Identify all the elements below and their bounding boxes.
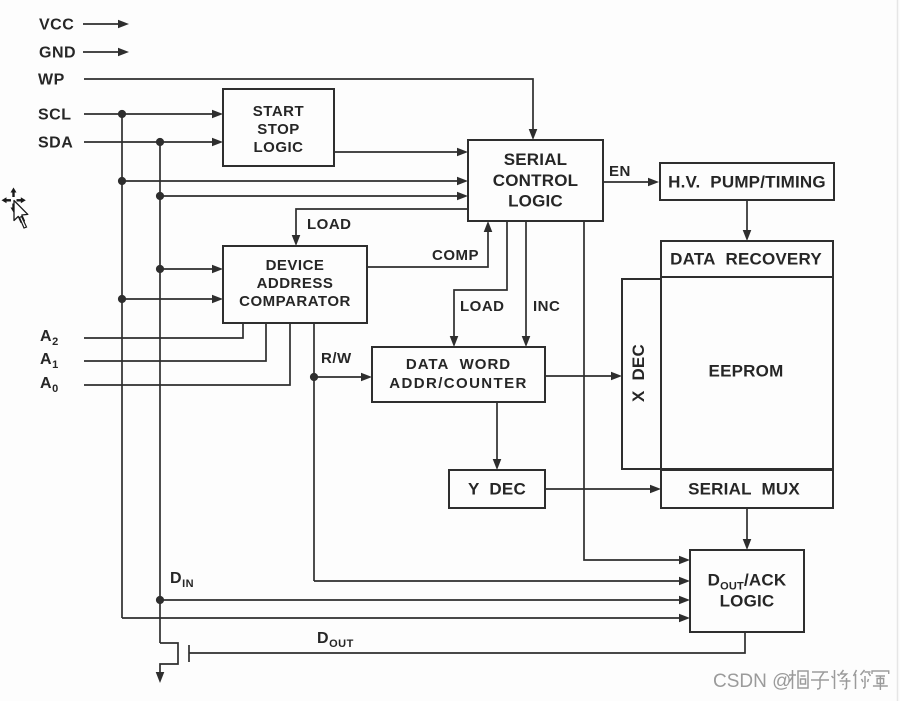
block DATA WORD ADDR/COUNTER [372, 347, 545, 402]
arrowhead serial mux [650, 485, 661, 494]
transistor Q1 channel [160, 643, 178, 675]
svg-text:A2: A2 [40, 328, 59, 348]
glyph ni [854, 670, 871, 689]
wire A1 [84, 323, 266, 361]
arrowhead WP down [529, 129, 538, 140]
wire y dec to serial mux [545, 488, 653, 490]
arrowhead transistor ground [156, 672, 165, 683]
wire serial control to dout ack [584, 221, 682, 560]
wire SCL input [84, 113, 215, 115]
svg-text:Y DEC: Y DEC [468, 480, 526, 499]
svg-text:EN: EN [609, 163, 631, 180]
glyph zi [811, 672, 829, 689]
wire COMP to serial control [367, 229, 488, 267]
svg-text:DIN: DIN [170, 570, 194, 590]
svg-text:SCL: SCL [38, 107, 72, 124]
transistor Q1 gate plate [188, 645, 190, 662]
arrowhead SCL comparator [212, 295, 223, 304]
wire SCL to comparator [122, 298, 215, 300]
svg-text:LOGIC: LOGIC [254, 139, 304, 156]
wire SDA input [84, 141, 215, 143]
svg-text:DATA WORD: DATA WORD [406, 356, 511, 373]
svg-text:SERIAL: SERIAL [504, 150, 568, 169]
wire R/W to data word counter [314, 376, 364, 378]
arrowhead GND [118, 48, 129, 57]
svg-text:SERIAL MUX: SERIAL MUX [688, 480, 800, 499]
svg-text:WP: WP [38, 72, 65, 89]
wire SCL vertical bus [121, 114, 123, 618]
junction dot R/W [310, 373, 318, 381]
arrowhead INC data word [522, 336, 531, 347]
arrowhead LOAD comparator [292, 235, 301, 246]
wire data word to x dec [545, 375, 614, 377]
svg-text:COMPARATOR: COMPARATOR [239, 293, 351, 310]
block DOUT/ACK LOGIC [690, 550, 804, 632]
arrowhead LOAD data word [450, 336, 459, 347]
wire EN [603, 181, 651, 183]
arrowhead data recovery [743, 230, 752, 241]
block Y DEC [449, 470, 545, 508]
svg-text:CSDN @: CSDN @ [713, 671, 791, 692]
arrowhead dout ack in2 [679, 577, 690, 586]
wire R/W to dout ack logic [314, 580, 682, 582]
arrowhead y dec [493, 459, 502, 470]
block SERIAL MUX [661, 470, 833, 508]
wire R/W vertical [313, 323, 315, 581]
arrowhead dout ack in1 [679, 556, 690, 565]
arrowhead SDA serial control [457, 192, 468, 201]
wire A0 [84, 323, 290, 385]
svg-text:A1: A1 [40, 351, 59, 371]
junction dot SDA comparator tap [156, 265, 164, 273]
svg-text:DOUT: DOUT [317, 630, 354, 650]
arrowhead x dec [611, 372, 622, 381]
svg-text:X DEC: X DEC [629, 344, 648, 402]
svg-text:SDA: SDA [38, 135, 73, 152]
svg-text:GND: GND [39, 45, 76, 62]
junction dot SDA [156, 138, 164, 146]
junction dot SCL comparator tap [118, 295, 126, 303]
wire SCL bus to dout ack [122, 617, 682, 619]
block X DEC [622, 279, 661, 469]
svg-text:LOAD: LOAD [460, 298, 505, 315]
svg-text:VCC: VCC [39, 17, 74, 34]
wire DIN [160, 599, 682, 601]
wire LOAD to data word counter [454, 221, 507, 339]
arrowhead SDA comparator [212, 265, 223, 274]
svg-text:LOGIC: LOGIC [720, 592, 775, 611]
svg-text:STOP: STOP [257, 121, 300, 138]
wire hv pump to data recovery [746, 200, 748, 233]
wire DOUT from dout ack logic to transistor gate [189, 632, 745, 653]
glyph jiang [832, 670, 851, 689]
block H.V. PUMP/TIMING [660, 163, 834, 200]
page edge line [897, 0, 899, 701]
junction dot DIN [156, 596, 164, 604]
svg-text:A0: A0 [40, 375, 59, 395]
svg-text:ADDR/COUNTER: ADDR/COUNTER [389, 375, 527, 392]
wire SDA vertical bus [159, 142, 161, 643]
cursor icon [2, 188, 28, 229]
glyph jun [872, 671, 889, 690]
wire SDA to comparator [160, 268, 215, 270]
arrowhead dout ack in3 DIN [679, 596, 690, 605]
svg-text:EEPROM: EEPROM [709, 362, 784, 381]
wire A2 [84, 323, 243, 338]
arrowhead COMP up [484, 221, 493, 232]
block DEVICE ADDRESS COMPARATOR [223, 246, 367, 323]
arrowhead dout ack in4 [679, 614, 690, 623]
wire SDA to serial control [160, 195, 460, 197]
svg-text:INC: INC [533, 298, 560, 315]
svg-text:DATA RECOVERY: DATA RECOVERY [670, 250, 822, 269]
svg-text:LOGIC: LOGIC [508, 192, 563, 211]
wire LOAD to device address comparator [296, 209, 468, 238]
arrowhead dout ack top [743, 539, 752, 550]
arrowhead SCL serial control [457, 177, 468, 186]
arrowhead EN [648, 178, 659, 187]
svg-text:START: START [253, 103, 304, 120]
wire VCC arrow [83, 23, 119, 25]
arrowhead start stop out [457, 148, 468, 157]
block DATA RECOVERY [661, 241, 833, 277]
glyph tong [789, 670, 808, 689]
wire WP to serial control top [84, 79, 533, 133]
junction dot SCL [118, 110, 126, 118]
wire data word to y dec [496, 402, 498, 462]
svg-text:COMP: COMP [432, 247, 479, 264]
wire start stop out [334, 151, 460, 153]
block SERIAL CONTROL LOGIC [468, 140, 603, 221]
svg-text:R/W: R/W [321, 350, 352, 367]
svg-text:DEVICE: DEVICE [266, 257, 325, 274]
arrowhead SDA [212, 138, 223, 147]
svg-text:ADDRESS: ADDRESS [257, 275, 334, 292]
wire SCL to serial control [122, 180, 460, 182]
svg-text:DOUT/ACK: DOUT/ACK [708, 571, 787, 593]
watermark CJK glyphs [789, 670, 889, 690]
block EEPROM [661, 277, 833, 469]
svg-text:LOAD: LOAD [307, 216, 352, 233]
wire INC to data word counter [525, 221, 527, 339]
svg-text:H.V. PUMP/TIMING: H.V. PUMP/TIMING [668, 173, 826, 192]
wire serial mux to dout ack [746, 508, 748, 542]
block START STOP LOGIC [223, 89, 334, 166]
svg-text:CONTROL: CONTROL [493, 171, 578, 190]
junction dot SDA tap [156, 192, 164, 200]
junction dot SCL tap [118, 177, 126, 185]
arrowhead VCC [118, 20, 129, 29]
arrowhead R/W data word [361, 373, 372, 382]
wire GND arrow [83, 51, 119, 53]
arrowhead SCL [212, 110, 223, 119]
watermark CSDN [713, 671, 791, 692]
